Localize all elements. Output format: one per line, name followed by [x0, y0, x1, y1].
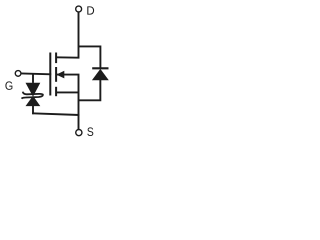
label D	[87, 6, 94, 14]
wire: bottom rail from zener anode to S wire	[32, 113, 79, 115]
label S	[87, 127, 93, 136]
wire: drain lead from MOSFET drain up to D terminal	[56, 12, 79, 58]
body arrow pointing to channel	[56, 71, 64, 79]
channel segment source side	[55, 87, 57, 96]
gate electrode line	[49, 53, 51, 96]
transistor Q1 N-channel MOSFET	[50, 53, 64, 97]
channel segment drain side	[55, 53, 57, 64]
cathode bar	[92, 67, 108, 69]
lower zener triangle pointing up	[26, 96, 41, 106]
wire: gate lead from G terminal to gate electrode	[21, 72, 51, 75]
anode triangle pointing up	[92, 69, 109, 80]
terminal S circle	[76, 130, 82, 136]
upper zener cathode bar (s-shaped)	[23, 92, 44, 95]
channel segment body (middle)	[55, 67, 57, 82]
upper zener triangle pointing down	[26, 83, 41, 97]
wire: top rail from drain node right to body diode cathode	[79, 46, 101, 67]
diode D1 body diode	[92, 68, 109, 80]
lower zener cathode bar (s-shaped)	[22, 95, 44, 99]
wire: body (arrow) lead and source vertical wire to S terminal	[56, 75, 79, 130]
wire: zener top lead from gate wire junction	[32, 74, 34, 83]
wire: body diode anode lead down and left to source node	[79, 80, 101, 100]
wire: zener bottom lead to bottom rail	[32, 106, 34, 114]
terminal D circle	[76, 6, 82, 12]
label G	[5, 81, 12, 90]
zener Z1 bidirectional gate protection zener	[22, 83, 44, 106]
terminal G circle	[15, 71, 21, 77]
wire: source lead from MOSFET source to S wire	[56, 91, 79, 93]
